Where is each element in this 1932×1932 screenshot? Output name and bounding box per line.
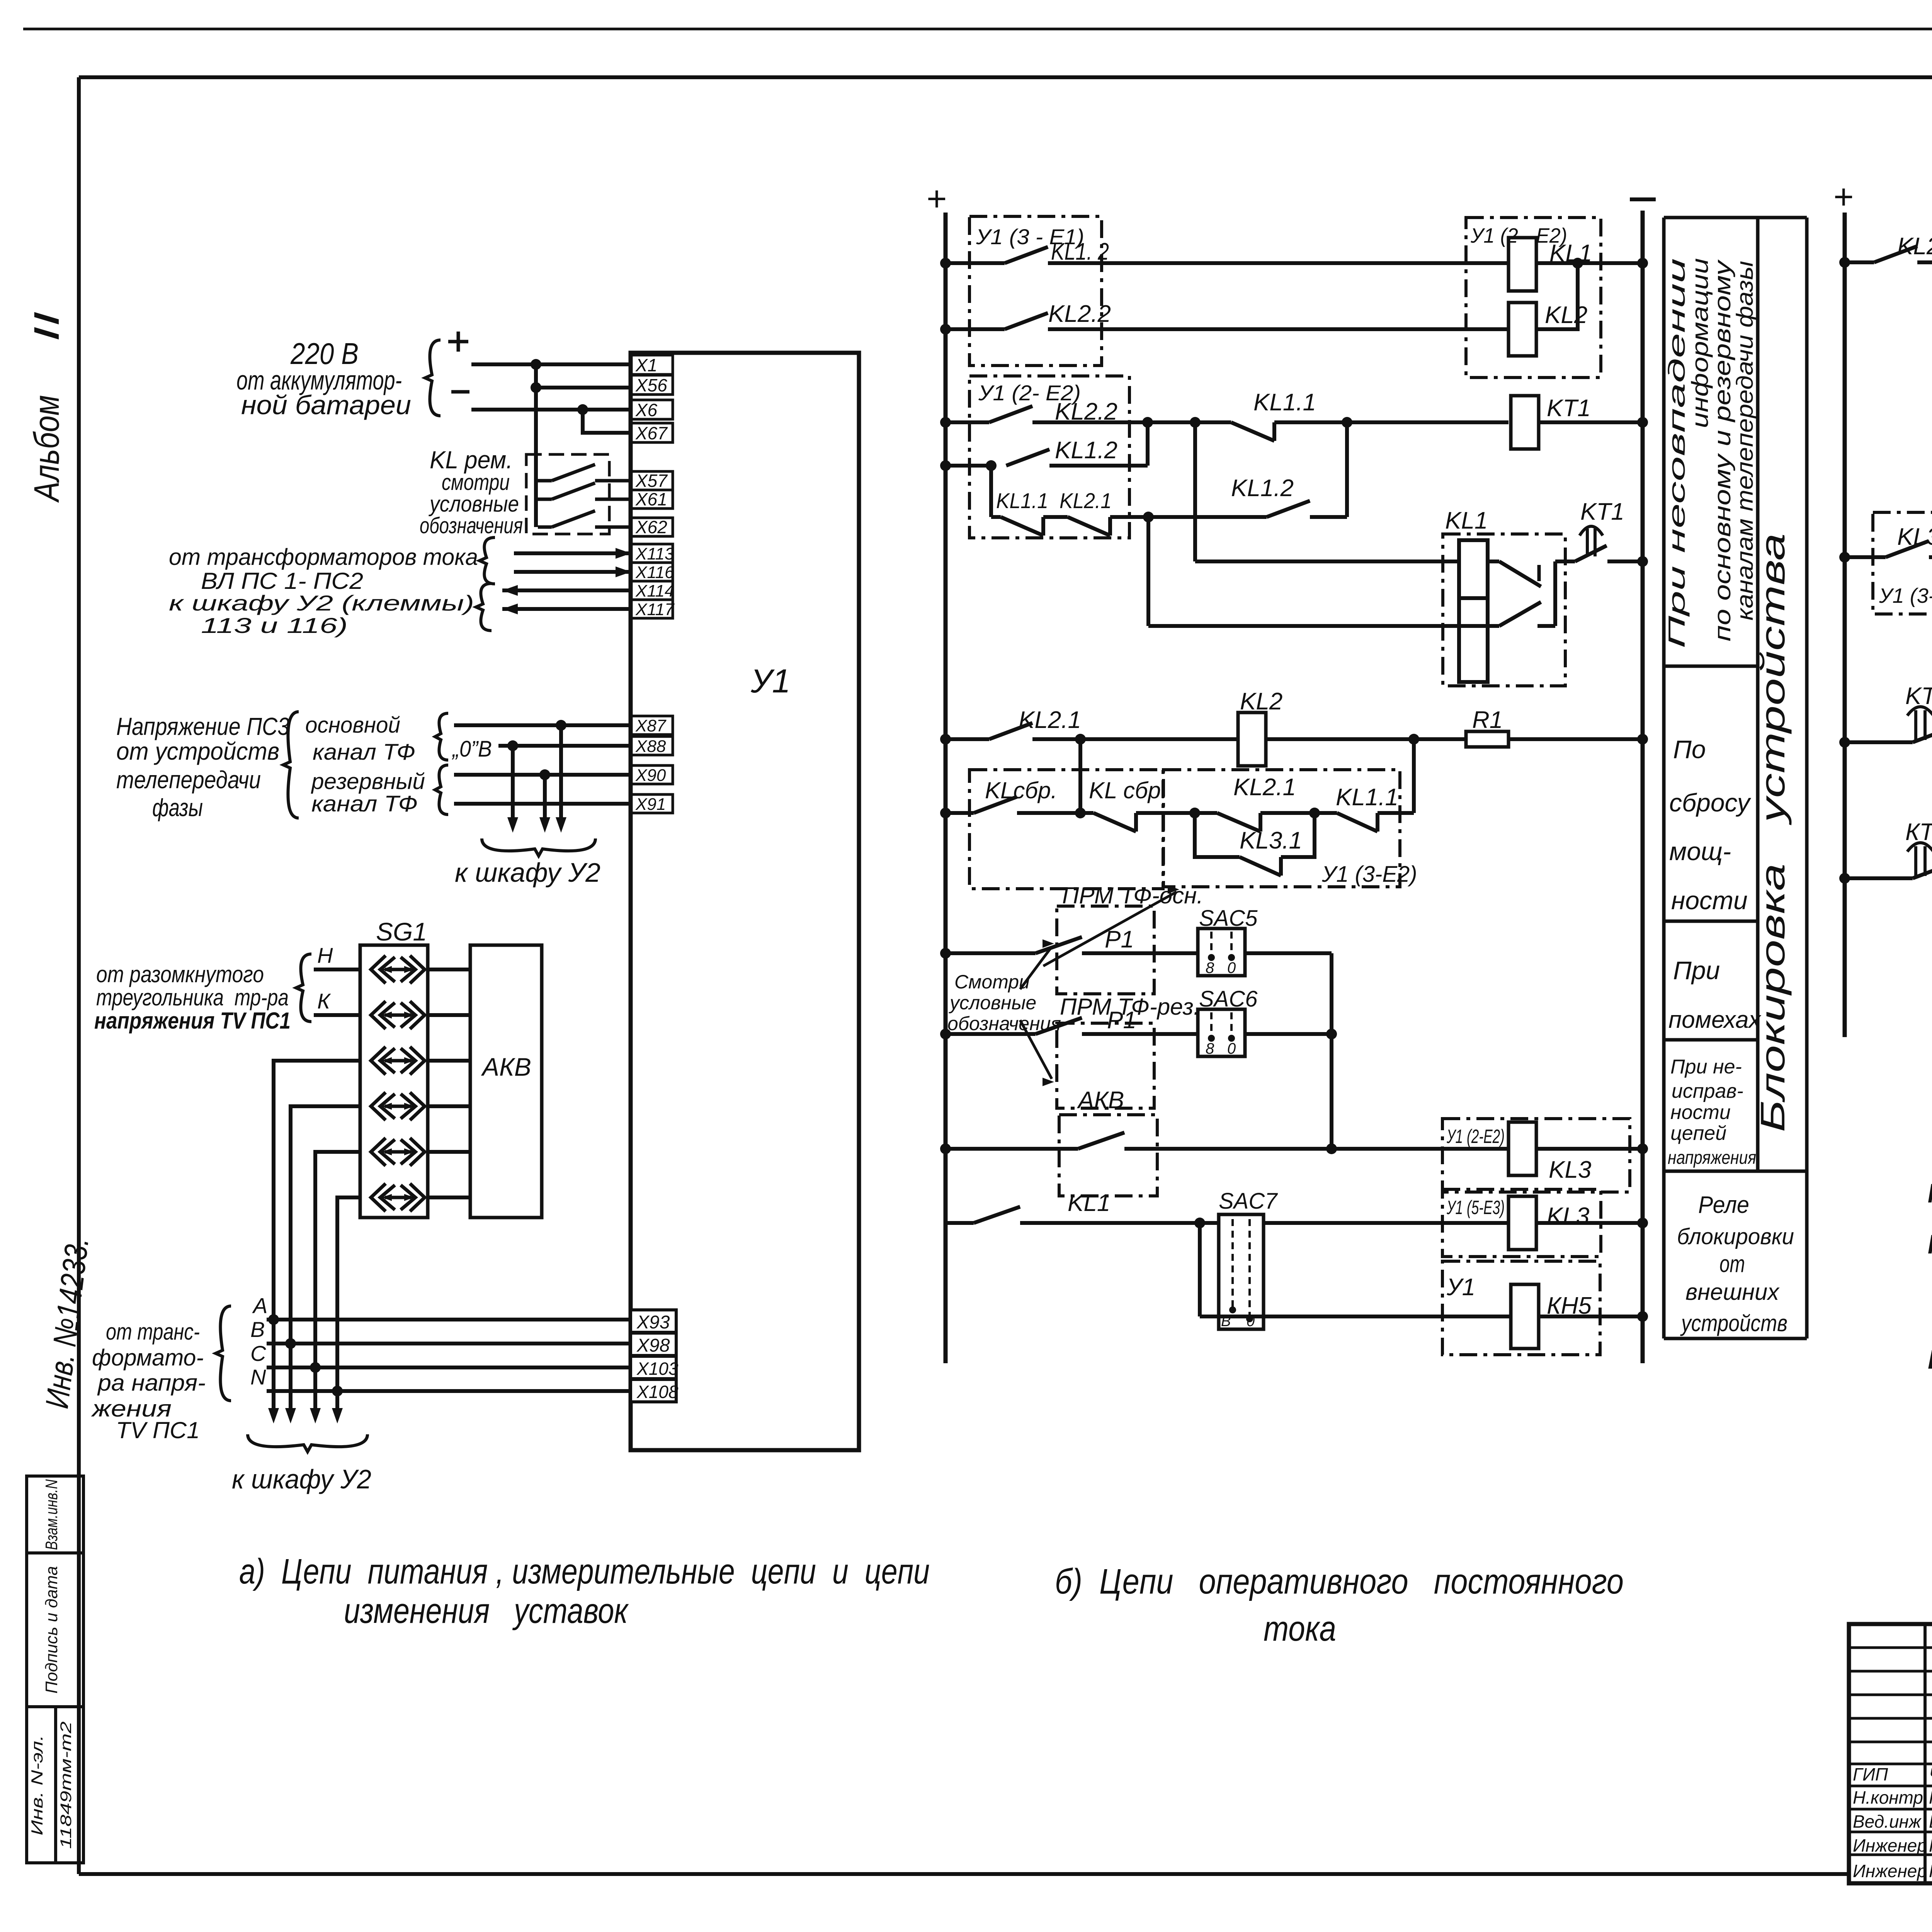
AKB block [470, 945, 542, 1218]
title block frame [1849, 1624, 1932, 1883]
wire KL3 to minus [1536, 1147, 1643, 1151]
SG1 jumper symbol row 4 [371, 1092, 386, 1120]
svg-text:У1 (2 - Е2): У1 (2 - Е2) [1470, 224, 1567, 247]
wire KN5 row [1200, 1315, 1511, 1318]
node row4 plus [940, 460, 951, 471]
svg-text:X67: X67 [635, 423, 668, 443]
wire SG1 row3 from phase A [274, 1061, 360, 1320]
dashed box AKB [1059, 1115, 1157, 1196]
terminal X93 [631, 1310, 676, 1332]
node X87 [556, 720, 566, 731]
wire to X88 [498, 744, 631, 748]
svg-text:фазы: фазы [152, 794, 203, 821]
svg-text:При несовпадении: При несовпадении [1664, 258, 1690, 648]
svg-text:обозначения: обозначения [420, 513, 523, 538]
svg-text:0: 0 [1227, 1040, 1236, 1057]
contact P1 rez [946, 1032, 1036, 1036]
wire SAC5 out [1245, 951, 1332, 955]
phase C wire [267, 1366, 631, 1369]
riser KL2 out to row1 [1536, 263, 1578, 329]
dashed box U1(5-E3) [1442, 1189, 1601, 1257]
svg-text:основной: основной [305, 713, 400, 738]
contact KLrem-3 [538, 526, 552, 529]
terminal X90 [631, 765, 673, 784]
terminal X116 [631, 563, 673, 581]
svg-text:X108: X108 [636, 1382, 679, 1402]
node r-row1 plus [1839, 257, 1850, 268]
note arrow 3 [1020, 1020, 1052, 1079]
svg-text:Рудакова: Рудакова [1929, 1861, 1932, 1881]
svg-text:АКВ: АКВ [481, 1053, 531, 1081]
svg-text:113 и 116): 113 и 116) [201, 613, 348, 638]
svg-text:X6: X6 [635, 400, 658, 420]
dashed box U1(3-E1) right [1873, 512, 1932, 614]
contact KL2.2 (right) [1845, 260, 1874, 264]
node X88 [507, 740, 518, 751]
svg-text:блокировки: блокировки [1677, 1224, 1794, 1249]
contact KL2.2 row3 [946, 420, 989, 424]
svg-text:Р1: Р1 [1107, 1007, 1136, 1034]
svg-text:11849тм-т2: 11849тм-т2 [58, 1721, 75, 1849]
node KL2.1/KL3.1 [1189, 808, 1200, 818]
svg-text:треугольника тр-ра: треугольника тр-ра [96, 985, 289, 1010]
riser KL2.1 to KLsbr row [1078, 739, 1082, 813]
node row1 minus [1637, 258, 1648, 269]
resistor R1 [1466, 731, 1509, 747]
contact KL2.1 series [1195, 811, 1217, 815]
wire SG1-AKB row 6 [428, 1196, 470, 1199]
terminal X98 [631, 1333, 676, 1355]
svg-text:KL сбр.: KL сбр. [1089, 777, 1167, 803]
coil KL1 [1509, 238, 1536, 291]
svg-text:При: При [1673, 956, 1720, 985]
svg-text:KL3: KL3 [1549, 1156, 1591, 1183]
contact P1 osn [946, 951, 1036, 955]
node KL2 row minus [1637, 734, 1648, 745]
riser to KN5 row [1198, 1223, 1202, 1316]
riser from +bus to KL rem contacts [534, 364, 538, 527]
node B row3 [1190, 417, 1201, 428]
wire SAC7 to KL3 [1264, 1221, 1509, 1225]
svg-text:KL2.2: KL2.2 [1897, 233, 1932, 260]
contact KL1.1 row5 [991, 515, 1001, 519]
contact KLsbr-2 [1080, 811, 1094, 815]
node phase B [285, 1338, 296, 1349]
coil KT1 [1511, 396, 1539, 449]
wire KN5 to minus [1539, 1315, 1643, 1318]
svg-text:X56: X56 [635, 375, 667, 395]
svg-text:формато-: формато- [92, 1345, 204, 1371]
wire SG1-AKB row 2 [428, 1013, 470, 1017]
branch wire to X67 [583, 410, 631, 433]
svg-text:X116: X116 [635, 563, 674, 582]
svg-text:устройств: устройств [1680, 1310, 1787, 1336]
svg-text:канал ТФ: канал ТФ [311, 791, 418, 816]
svg-text:ной батареи: ной батареи [241, 390, 411, 420]
svg-text:мощ-: мощ- [1669, 837, 1731, 866]
svg-text:С: С [250, 1341, 266, 1366]
dashed box U1 KN5 [1442, 1261, 1600, 1355]
phase N wire [267, 1389, 631, 1393]
terminal X1 [631, 355, 673, 374]
svg-text:ВЛ ПС 1- ПС2: ВЛ ПС 1- ПС2 [201, 568, 363, 594]
dashed box U1(2-E2) left [969, 376, 1129, 538]
terminal X6 [631, 400, 673, 419]
svg-text:У1: У1 [750, 663, 791, 700]
svg-text:от устройств: от устройств [116, 737, 279, 765]
riser to node C [1345, 422, 1349, 517]
wire KL3 to minus [1536, 1221, 1643, 1225]
wire SG1-AKB row 5 [428, 1150, 470, 1154]
wire SG1 row6 from phase N [337, 1197, 360, 1391]
parallel contact KL3.1 [1195, 813, 1240, 857]
svg-text:У1 (2- Е2): У1 (2- Е2) [978, 381, 1081, 405]
svg-text:KL1.2: KL1.2 [1231, 475, 1294, 502]
wire SG1 row5 from phase C [315, 1152, 360, 1367]
contact KL1.2 parallel [1148, 515, 1267, 519]
coil KL3 lower [1509, 1196, 1536, 1250]
svg-text:KL1.1: KL1.1 [1253, 389, 1316, 416]
svg-text:тока: тока [1264, 1609, 1336, 1648]
svg-text:обозначения: обозначения [947, 1013, 1061, 1034]
svg-text:Инв. N-эл.: Инв. N-эл. [28, 1735, 46, 1835]
svg-text:Инженер: Инженер [1853, 1861, 1927, 1881]
svg-text:KL2: KL2 [1240, 688, 1282, 715]
svg-text:К: К [317, 989, 331, 1013]
contact KL2.1 [946, 737, 989, 741]
svg-text:SAC7: SAC7 [1219, 1189, 1278, 1214]
svg-text:от разомкнутого: от разомкнутого [96, 961, 264, 987]
svg-text:X1: X1 [635, 355, 657, 375]
svg-text:напряжения ТV ПС1: напряжения ТV ПС1 [94, 1008, 291, 1034]
contact KL1.2 row1 [946, 261, 1005, 265]
svg-text:ра напря-: ра напря- [97, 1370, 206, 1396]
minus bus (section b) [1630, 197, 1656, 201]
svg-text:напряжения: напряжения [1668, 1148, 1756, 1168]
wire SG1-AKB row 3 [428, 1059, 470, 1063]
wire SG1-AKB row 1 [428, 968, 470, 971]
node row3 plus [940, 417, 951, 428]
node at X56 row [531, 382, 541, 393]
node AKB/SAC [1326, 1143, 1337, 1154]
terminal X103 [631, 1356, 676, 1379]
node KN5 minus [1637, 1311, 1648, 1322]
node row4 branch [986, 460, 997, 471]
svg-text:условные: условные [949, 992, 1036, 1014]
svg-text:ТV ПС1: ТV ПС1 [116, 1417, 200, 1443]
svg-text:У1 (3-Е1): У1 (3-Е1) [1879, 584, 1932, 607]
KL1 lower contact blade [1499, 602, 1541, 626]
svg-text:KT1: KT1 [1547, 395, 1591, 422]
dashed box PRM rez [1057, 1023, 1154, 1108]
riser node B down [1193, 422, 1197, 561]
node R1 left [1408, 734, 1419, 745]
terminal X91 [631, 794, 673, 813]
coil KL3 [1509, 1122, 1536, 1175]
terminal X61 [631, 490, 673, 509]
wire from X114 [502, 588, 631, 592]
svg-text:II: II [27, 311, 66, 342]
wire to X91 [454, 802, 631, 806]
svg-text:X61: X61 [635, 489, 667, 509]
node row2 plus [940, 324, 951, 335]
svg-text:X90: X90 [635, 766, 666, 785]
wire to X90 [454, 773, 631, 777]
svg-text:от транс-: от транс- [106, 1319, 200, 1345]
svg-text:резервный: резервный [311, 769, 425, 794]
contact KL1.2 row4 [946, 464, 991, 468]
note arrow 1 [1043, 892, 1177, 966]
drop wires to cabinet U2 [559, 725, 563, 827]
svg-text:KL3: KL3 [1547, 1203, 1589, 1230]
KT1 arrow symbol [1586, 529, 1589, 556]
svg-text:изменения уставок: изменения уставок [344, 1591, 629, 1631]
terminal X117 [631, 600, 673, 618]
terminal X56 [631, 375, 673, 395]
svg-text:X117: X117 [635, 600, 675, 619]
wire to X56 [536, 386, 631, 389]
dashed box U1(2-E2) KL3 [1442, 1119, 1630, 1192]
dashed box U1(3-E2) [1163, 770, 1400, 887]
node row3 minus [1637, 417, 1648, 428]
KL1 upper contact blade [1499, 561, 1541, 587]
svg-text:ности: ности [1671, 886, 1748, 915]
svg-text:телепередачи: телепередачи [116, 766, 261, 794]
node KLsbr row plus [940, 808, 951, 818]
wire KT1 to minus [1539, 420, 1643, 424]
SG1 jumper symbol row 6 [371, 1184, 386, 1211]
SG1 jumper symbol row 1 [371, 956, 386, 983]
node P1rez plus [940, 1029, 951, 1039]
svg-text:цепей: цепей [1670, 1122, 1726, 1145]
wire -220V to X6 [471, 408, 631, 412]
SG1 jumper symbol row 5 [371, 1138, 386, 1166]
contact KLsbr-1 [946, 811, 974, 815]
node KL2 row plus [940, 734, 951, 745]
node KL3 minus [1637, 1143, 1648, 1154]
node KL3 lower minus [1637, 1218, 1648, 1228]
svg-text:У1 (2-Е2): У1 (2-Е2) [1446, 1126, 1505, 1147]
node A row3 [1142, 417, 1153, 428]
wire SAC6 out [1245, 1032, 1332, 1036]
contact KLrem-2 [538, 498, 552, 501]
KL1 latching relay box [1443, 534, 1565, 686]
svg-text:X113: X113 [635, 544, 674, 563]
svg-text:X103: X103 [636, 1359, 679, 1379]
wire SG1 row4 from phase B [291, 1106, 360, 1344]
node KL2 riser top [1572, 258, 1583, 269]
contact KL3.2 [1845, 555, 1886, 559]
node KT2 row plus [1839, 552, 1850, 563]
phase A wire [267, 1318, 631, 1321]
node phase C [310, 1362, 321, 1373]
drops to cabinet U2 [272, 1320, 276, 1417]
svg-text:Напряжение ПС3: Напряжение ПС3 [116, 713, 289, 740]
svg-text:А: А [252, 1293, 267, 1318]
svg-text:по основному и резервному: по основному и резервному [1709, 259, 1735, 641]
contact KL2.2 row2 [946, 327, 1005, 331]
K input wire [314, 1013, 360, 1017]
dashed box KL rem [526, 454, 609, 534]
svg-text:При не-: При не- [1670, 1056, 1742, 1078]
node P1 row plus [940, 948, 951, 959]
svg-text:8: 8 [1206, 959, 1214, 976]
riser SAC5/6 to AKB row [1330, 953, 1333, 1149]
svg-text:KL3.1: KL3.1 [1240, 827, 1302, 854]
KL1 lower contact wire [1148, 624, 1499, 628]
svg-text:+: + [1833, 178, 1854, 216]
svg-text:помехах: помехах [1668, 1007, 1762, 1033]
svg-text:Блокировка устройства: Блокировка устройства [1753, 533, 1792, 1132]
svg-text:Смотри: Смотри [954, 971, 1030, 993]
svg-text:Альбом: Альбом [27, 395, 66, 503]
svg-text:У1 (3-Е2): У1 (3-Е2) [1321, 862, 1417, 887]
dashed box U1(2-E2) coils [1466, 218, 1601, 378]
drawing frame [79, 75, 1932, 79]
svg-text:Подпись и дата: Подпись и дата [42, 1566, 61, 1694]
svg-text:Вед.инж: Вед.инж [1853, 1811, 1922, 1832]
svg-text:X87: X87 [635, 716, 667, 735]
svg-text:R1: R1 [1472, 707, 1503, 733]
svg-text:канал ТФ: канал ТФ [313, 740, 415, 765]
wire to KL1 relay [1195, 560, 1499, 563]
svg-text:X62: X62 [635, 517, 667, 537]
left margin stamp boxes [27, 1476, 83, 1863]
svg-text:У1 (3 - Е1): У1 (3 - Е1) [976, 224, 1084, 249]
svg-text:8: 8 [1206, 1040, 1214, 1057]
svg-text:KL1.2: KL1.2 [1055, 437, 1117, 464]
wire SG1-AKB row 4 [428, 1104, 470, 1108]
svg-text:X88: X88 [635, 737, 666, 756]
svg-text:ности: ности [1670, 1101, 1731, 1124]
wire R1 to minus [1509, 737, 1643, 741]
svg-text:внешних: внешних [1685, 1279, 1780, 1305]
svg-text:X98: X98 [636, 1335, 670, 1356]
svg-text:Взам.инв.N: Взам.инв.N [42, 1479, 61, 1550]
svg-text:ПРМ ТФ-осн.: ПРМ ТФ-осн. [1062, 883, 1203, 908]
svg-text:У1 (5-Е3): У1 (5-Е3) [1446, 1197, 1505, 1218]
svg-text:информации: информации [1687, 258, 1713, 428]
svg-text:KT1: KT1 [1580, 498, 1624, 525]
svg-text:Колмакова: Колмакова [1929, 1835, 1932, 1855]
svg-text:Плещенко: Плещенко [1929, 1787, 1932, 1808]
node at X6 row [577, 404, 588, 415]
terminal X87 [631, 716, 673, 735]
svg-text:Инженер: Инженер [1853, 1835, 1927, 1855]
wire +220V to X1 [471, 362, 631, 366]
KL1 relay windings [1459, 540, 1488, 598]
svg-text:N: N [250, 1365, 266, 1389]
SG1 jumper symbol row 2 [371, 1001, 386, 1029]
outer top border line [23, 28, 1932, 31]
dashed box KLsbr [969, 770, 1163, 889]
wire KL2 to R1 [1266, 737, 1466, 741]
svg-text:KL1.1: KL1.1 [996, 488, 1048, 513]
svg-text:б) Цепи оперативного пост: б) Цепи оперативного постоянного [1055, 1562, 1624, 1601]
svg-text:0: 0 [1227, 959, 1236, 976]
minus sign battery [451, 390, 469, 394]
svg-text:Н.контр.: Н.контр. [1853, 1787, 1928, 1808]
svg-text:АКВ: АКВ [1077, 1087, 1124, 1114]
node row5 [1143, 512, 1154, 522]
node phase A [268, 1314, 279, 1325]
node C row3 [1342, 417, 1352, 428]
contact KLrem-1 [538, 479, 552, 483]
device U1 box [631, 353, 859, 1450]
svg-text:Н: Н [317, 943, 333, 968]
node SAC riser [1326, 1029, 1337, 1039]
node KL1/KN5 riser [1194, 1218, 1205, 1228]
node after KL2.1 [1309, 808, 1320, 818]
svg-text:X57: X57 [635, 471, 668, 491]
node at X1 row [531, 359, 541, 370]
svg-text:В: В [250, 1317, 265, 1342]
svg-text:KL1: KL1 [1445, 507, 1488, 534]
node KLsbr riser [1075, 734, 1086, 745]
wire row3 [1148, 420, 1195, 424]
riser KLsbr row to R1 node [1412, 739, 1416, 813]
svg-text:SG1: SG1 [376, 917, 427, 946]
svg-text:Чекаловец: Чекаловец [1929, 1764, 1932, 1784]
coil KN5 [1511, 1284, 1539, 1349]
wire to X113 [514, 551, 631, 555]
svg-text:а) Цепи питания , измеритель: а) Цепи питания , измерительные цепи и ц… [239, 1552, 930, 1591]
svg-text:По: По [1673, 735, 1706, 764]
contact KL2.1 row5 [1043, 515, 1068, 519]
node row1 plus [940, 258, 951, 269]
svg-text:KLсбр.: KLсбр. [985, 777, 1057, 803]
terminal X114 [631, 581, 673, 600]
section b right header table [1664, 216, 1807, 219]
svg-text:Бирюкова: Бирюкова [1929, 1811, 1932, 1832]
svg-text:от трансформаторов тока: от трансформаторов тока [169, 544, 478, 570]
contact KL1 [946, 1221, 974, 1225]
svg-text:X93: X93 [636, 1312, 670, 1333]
wire to X116 [514, 570, 631, 574]
svg-text:исправ-: исправ- [1672, 1080, 1743, 1102]
svg-text:к шкафу У2: к шкафу У2 [455, 857, 600, 888]
terminal X67 [631, 423, 673, 442]
coil KL2 [1509, 303, 1536, 356]
node X90 [539, 769, 550, 780]
svg-text:ГИП: ГИП [1853, 1764, 1888, 1784]
H input wire [314, 968, 360, 971]
contact KL1.1 series [1315, 811, 1337, 815]
note arrow 2 [1020, 947, 1052, 989]
terminal X108 [631, 1379, 676, 1402]
contact KL1.1 row3 [1195, 420, 1231, 424]
svg-text:к шкафу У2 (клеммы): к шкафу У2 (клеммы) [169, 591, 474, 615]
svg-text:KL2.1: KL2.1 [1019, 707, 1081, 733]
svg-text:KL рем.: KL рем. [1928, 1178, 1932, 1208]
svg-text:Р1: Р1 [1928, 1344, 1932, 1378]
svg-text:X114: X114 [635, 582, 674, 600]
svg-text:X91: X91 [635, 795, 666, 814]
coil KL2 shunt [1238, 713, 1266, 766]
terminal X113 [631, 544, 673, 563]
SG1 jumper symbol row 3 [371, 1047, 386, 1075]
dashed box PRM osn [1057, 906, 1154, 994]
svg-text:KL сбр.: KL сбр. [1928, 1229, 1932, 1259]
wire from X117 [502, 607, 631, 611]
svg-text:сбросу: сбросу [1669, 788, 1752, 817]
branch row4 to row5 [989, 466, 993, 517]
terminal X57 [631, 471, 673, 490]
svg-text:„0”В: „0”В [451, 736, 492, 762]
svg-text:KL2.1: KL2.1 [1060, 488, 1112, 513]
node KLsbr mid [1075, 808, 1086, 818]
node AKB plus [940, 1143, 951, 1154]
